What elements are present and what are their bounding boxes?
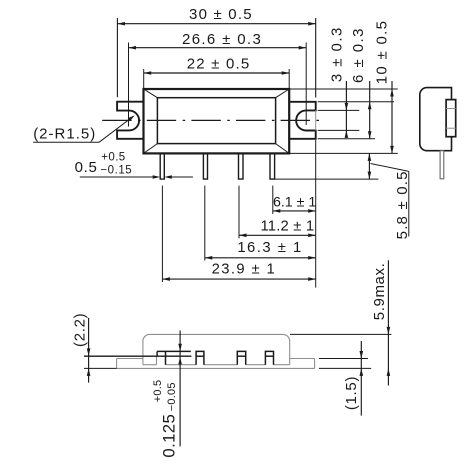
dimension 0.5 lead width: right line with arrow [171,176,193,178]
extension line: slot top edge (for 3 dim) [318,109,360,111]
extension line: body top edge (for 10 dim) [289,88,398,90]
dimension (1.5): flange top extension line [319,358,368,360]
svg-text:26.6 ± 0.3: 26.6 ± 0.3 [182,31,262,48]
dimension 11.2±1: dimension line with arrows [239,234,316,236]
dimension 0.125: dimension line with outside arrows [179,331,181,447]
svg-text:−0.15: −0.15 [100,165,132,177]
svg-text:0.125: 0.125 [160,414,179,458]
svg-text:(1.5): (1.5) [343,376,360,410]
extension line: right tab outer edge reference [315,140,317,288]
svg-text:6.1 ± 1: 6.1 ± 1 [273,194,316,210]
dimension 5.9max: cap top extension line [290,333,391,335]
top view: corner bevel lines [144,89,158,98]
svg-text:23.9 ± 1: 23.9 ± 1 [212,262,277,278]
dimension 23.9±1: dimension line with arrows [162,278,315,280]
top view: package body outer outline [144,89,290,153]
extension line: lead 4 center [272,186,274,214]
dimension 3±0.3: dimension line with outside arrows [345,81,347,137]
profile view: lead top surface line [157,350,191,352]
svg-text:(2.2): (2.2) [71,313,88,347]
svg-text:5.9max.: 5.9max. [371,263,388,321]
profile view: lead bottom surface line (extended left for dimension) [84,355,191,357]
dimension 5.8±0.5: dimension line with arrows [368,153,370,179]
svg-text:+0.5: +0.5 [152,380,164,403]
extension line: lead 2 center [204,186,206,261]
extension line: lead 1 center [161,186,163,282]
top view: package body inner (cap step) rectangle [157,98,275,144]
dimension 0.5 lead width: left line with arrow [80,176,154,178]
svg-text:10 ± 0.5: 10 ± 0.5 [373,20,390,85]
top view: left mounting tab with screw slot [117,102,143,139]
dimension 30±0.5: extension lines [116,18,118,97]
profile view: lead 3 cross-section [237,351,245,364]
svg-text:16.3 ± 1: 16.3 ± 1 [237,240,302,256]
dimension 6±0.3: dimension line with arrows [369,81,371,139]
dimension (2.2): dimension line with outside arrows [88,318,90,383]
svg-text:30 ± 0.5: 30 ± 0.5 [189,6,253,23]
dimension 22±0.5: extension lines [143,69,145,89]
svg-text:(2-R1.5): (2-R1.5) [33,126,96,143]
end view: lead stack block [446,100,456,137]
dimension 26.6±0.3: dimension line with arrows [129,47,307,49]
svg-text:+0.5: +0.5 [101,152,125,164]
end view: package outline [420,88,452,151]
extension line: tab top edge (for 6 dim) [318,101,394,103]
profile view: molded cap outline [143,334,290,364]
extension line: lead 3 center [238,186,240,239]
svg-text:22 ± 0.5: 22 ± 0.5 [187,56,251,73]
dimension 5.8±0.5: label underline [408,171,410,236]
svg-text:−0.05: −0.05 [166,382,178,411]
profile view: flange base plate [117,358,143,360]
profile view: cap riser left of lead 1 [156,356,158,365]
dimension (2.2): flange bottom extension line [84,367,117,369]
top view: lead 1 [160,154,164,179]
svg-text:6 ± 0.3: 6 ± 0.3 [350,27,367,83]
profile view: cap bottom edge segments [143,364,157,366]
dimension 16.3±1: dimension line with arrows [205,257,316,259]
top view: thin line across right slot opening [315,110,317,130]
top view: lead 3 [239,154,244,179]
profile view: lead 1 edges [156,351,158,356]
extension line: body bottom edge (for 10 dim) [289,152,398,154]
top view: lead 2 [203,154,207,179]
svg-text:11.2 ± 1: 11.2 ± 1 [260,219,314,235]
top view: horizontal dash-dot centerline [102,119,322,121]
profile view: lead 2 cross-section [196,351,204,364]
end view: lead wire [440,151,444,179]
dimension 26.6±0.3: extension lines [128,43,130,127]
end view: lead stack divider lines [446,108,456,110]
svg-text:0.5: 0.5 [75,159,98,176]
profile view: lead 4 cross-section [265,351,273,364]
top view: right mounting tab with screw slot [289,102,316,139]
dimension 5.8±0.5: leader line [371,164,409,172]
extension line: tab bottom edge (for 6 dim) [318,138,375,140]
callout (2-R1.5): underline and leader with arrow [33,141,99,143]
dimension 30±0.5: dimension line with arrows [117,23,315,25]
extension line: lead tip level (for 5.8 dim) [275,178,379,180]
dimension 22±0.5: dimension line with arrows [144,72,290,74]
dimension 6.1±1: dimension line with arrows [273,210,316,212]
dimension 5.9max: dimension line with outside arrows [387,260,389,385]
svg-text:3 ± 0.3: 3 ± 0.3 [328,26,345,82]
extension line: slot bottom edge (for 3 dim) [318,129,360,131]
dimension 10±0.5: dimension line with arrows [391,81,393,153]
dimension (1.5): dimension line with outside arrows [360,341,362,416]
top view: lead 4 [270,154,275,179]
svg-text:5.8 ± 0.5: 5.8 ± 0.5 [394,170,411,239]
dimension (1.5): flange bottom extension line [319,367,371,369]
